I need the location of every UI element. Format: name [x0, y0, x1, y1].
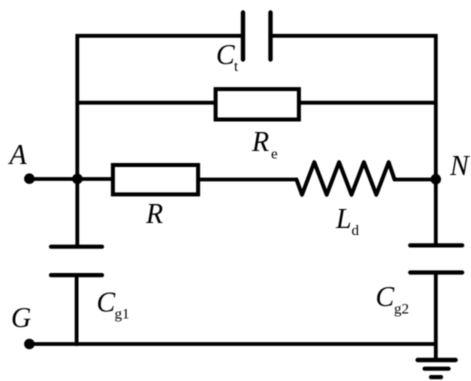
- wire from A to junction: [29, 177, 113, 181]
- capacitor C_t: [243, 13, 271, 60]
- svg-text:e: e: [271, 147, 278, 163]
- wire top right horizontal from Ct: [271, 34, 438, 38]
- capacitor C_g2: [410, 245, 462, 272]
- label N: [449, 151, 470, 182]
- ground: [418, 360, 456, 377]
- svg-text:N: N: [449, 151, 470, 182]
- capacitor C_g1: [51, 247, 102, 275]
- wire right vertical rail: [434, 34, 438, 247]
- label A: [8, 140, 28, 171]
- label R: [145, 199, 163, 230]
- junction dot on left rail: [72, 174, 83, 185]
- svg-text:C: C: [97, 288, 116, 319]
- label C_g1: [97, 288, 130, 323]
- resistor R: [113, 165, 198, 194]
- wire second row left to Re: [77, 101, 216, 105]
- label G: [11, 303, 31, 334]
- label R_e: [251, 127, 278, 163]
- svg-text:G: G: [11, 303, 31, 334]
- resistor R_e: [216, 89, 299, 119]
- label L_d: [335, 204, 360, 239]
- wire top left horizontal to Ct: [76, 34, 244, 38]
- label C_t: [216, 40, 239, 75]
- svg-text:C: C: [376, 282, 395, 313]
- wire second row right from Re: [299, 101, 436, 105]
- wire from Ld to node N: [394, 178, 436, 182]
- svg-text:d: d: [352, 223, 360, 239]
- svg-text:R: R: [145, 199, 163, 230]
- label C_g2: [376, 282, 410, 318]
- svg-text:g2: g2: [394, 302, 409, 318]
- wire bottom rail: [29, 342, 437, 346]
- node A: [24, 173, 35, 184]
- svg-text:R: R: [251, 127, 269, 158]
- svg-text:A: A: [8, 140, 28, 171]
- svg-text:C: C: [216, 40, 235, 71]
- wire from R to Ld: [198, 178, 298, 182]
- wire below Cg2 to ground: [434, 273, 438, 361]
- node G: [24, 339, 35, 350]
- node N: [431, 174, 442, 185]
- inductor L_d (zigzag): [297, 162, 395, 195]
- wire below Cg1 to bottom rail: [75, 275, 79, 346]
- svg-text:L: L: [335, 204, 352, 235]
- svg-text:g1: g1: [115, 307, 130, 323]
- wire left vertical rail: [75, 34, 79, 248]
